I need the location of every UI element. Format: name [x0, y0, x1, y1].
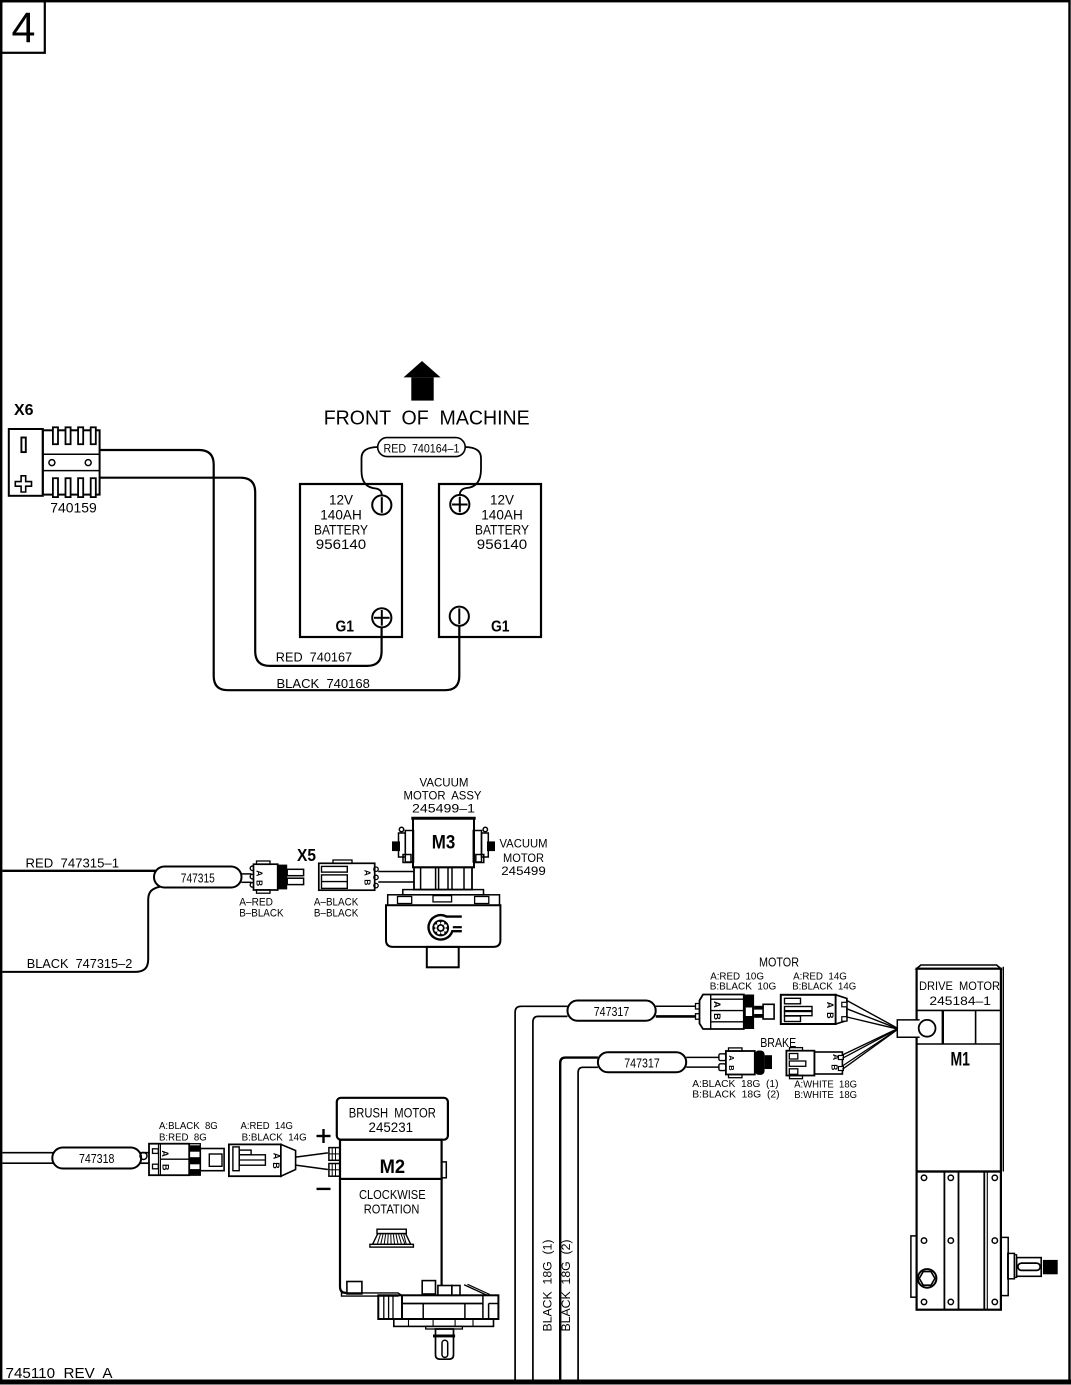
svg-text:MOTOR: MOTOR [503, 853, 544, 865]
svg-text:B: B [160, 1164, 170, 1171]
svg-text:A: A [254, 870, 264, 876]
svg-text:MOTOR: MOTOR [759, 955, 799, 970]
svg-text:G1: G1 [491, 619, 510, 636]
svg-text:245499–1: 245499–1 [412, 803, 475, 815]
svg-text:X6: X6 [14, 402, 34, 419]
svg-text:A: A [711, 1001, 722, 1008]
svg-text:A: A [727, 1055, 736, 1061]
svg-text:M1: M1 [950, 1049, 970, 1070]
svg-text:B–BLACK: B–BLACK [314, 907, 359, 919]
svg-text:ROTATION: ROTATION [364, 1202, 420, 1217]
svg-text:G1: G1 [335, 619, 354, 636]
svg-text:B: B [830, 1064, 840, 1070]
svg-text:B: B [825, 1012, 835, 1019]
svg-text:A:RED 14G: A:RED 14G [241, 1120, 293, 1132]
svg-text:B:BLACK 18G (2): B:BLACK 18G (2) [692, 1088, 779, 1100]
svg-text:A: A [831, 1054, 841, 1060]
svg-text:4: 4 [12, 4, 36, 52]
svg-text:B: B [254, 880, 264, 886]
svg-text:CLOCKWISE: CLOCKWISE [359, 1187, 426, 1202]
svg-text:140AH: 140AH [481, 507, 523, 523]
svg-text:B: B [727, 1065, 736, 1071]
svg-text:747317: 747317 [594, 1004, 630, 1019]
svg-text:RED 747315–1: RED 747315–1 [26, 855, 120, 870]
svg-text:245184–1: 245184–1 [929, 994, 991, 1008]
svg-text:B: B [271, 1162, 281, 1169]
svg-text:140AH: 140AH [320, 507, 362, 523]
svg-text:VACUUM: VACUUM [420, 778, 469, 790]
svg-text:FRONT OF MACHINE: FRONT OF MACHINE [324, 407, 530, 430]
svg-text:B: B [362, 879, 372, 885]
svg-text:BLACK 18G (2): BLACK 18G (2) [561, 1239, 573, 1331]
svg-text:956140: 956140 [316, 536, 367, 552]
svg-text:DRIVE MOTOR: DRIVE MOTOR [919, 981, 1000, 993]
svg-text:A:BLACK 8G: A:BLACK 8G [159, 1120, 218, 1132]
svg-text:245231: 245231 [369, 1120, 414, 1135]
svg-text:VACUUM: VACUUM [500, 839, 548, 851]
svg-text:B: B [711, 1013, 722, 1020]
svg-text:747318: 747318 [79, 1151, 115, 1166]
svg-text:12V: 12V [490, 492, 515, 508]
svg-text:747317: 747317 [624, 1055, 660, 1070]
svg-text:MOTOR ASSY: MOTOR ASSY [404, 790, 482, 802]
svg-text:A: A [362, 870, 372, 876]
svg-text:BLACK 747315–2: BLACK 747315–2 [27, 956, 133, 971]
svg-text:B:WHITE 18G: B:WHITE 18G [794, 1089, 857, 1101]
svg-text:BLACK 18G (1): BLACK 18G (1) [543, 1239, 555, 1331]
svg-text:A: A [825, 1002, 835, 1009]
svg-text:BLACK 740168: BLACK 740168 [277, 676, 370, 691]
svg-text:RED 740164–1: RED 740164–1 [384, 441, 460, 455]
svg-text:M3: M3 [432, 833, 456, 854]
svg-text:B–BLACK: B–BLACK [239, 907, 284, 919]
svg-text:B:BLACK 14G: B:BLACK 14G [792, 980, 856, 992]
svg-text:B:BLACK 10G: B:BLACK 10G [710, 980, 777, 992]
svg-text:245499: 245499 [501, 866, 546, 878]
svg-text:B:RED 8G: B:RED 8G [159, 1132, 207, 1144]
svg-text:747315: 747315 [181, 871, 215, 886]
svg-text:745110 REV A: 745110 REV A [6, 1365, 113, 1382]
svg-text:A: A [272, 1153, 282, 1160]
svg-text:A: A [160, 1150, 170, 1157]
svg-text:956140: 956140 [477, 536, 528, 552]
svg-text:X5: X5 [297, 845, 316, 865]
svg-text:M2: M2 [380, 1157, 406, 1178]
svg-text:B:BLACK 14G: B:BLACK 14G [242, 1132, 307, 1144]
svg-text:BRUSH MOTOR: BRUSH MOTOR [349, 1106, 436, 1121]
svg-text:740159: 740159 [50, 500, 97, 516]
svg-text:RED 740167: RED 740167 [276, 650, 352, 665]
svg-text:12V: 12V [329, 492, 354, 508]
